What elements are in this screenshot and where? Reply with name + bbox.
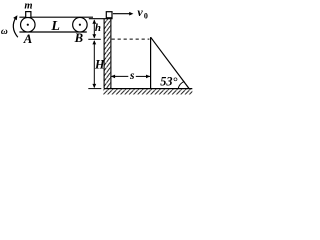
svg-text:s: s xyxy=(129,70,135,82)
svg-text:L: L xyxy=(50,19,60,34)
svg-text:H: H xyxy=(94,57,105,71)
ground line xyxy=(104,88,192,90)
tick at ground level left of wall xyxy=(88,88,101,90)
incline hypotenuse xyxy=(151,37,190,88)
pulley B xyxy=(73,17,88,32)
svg-text:m: m xyxy=(24,1,32,12)
svg-text:h: h xyxy=(95,22,101,34)
svg-text:ω: ω xyxy=(1,27,8,37)
wall top line xyxy=(89,18,113,20)
dashed line from wall to incline apex xyxy=(112,38,150,40)
s dimension arrow xyxy=(112,75,129,77)
wire: belt bottom line xyxy=(19,31,86,33)
block m on belt xyxy=(26,12,31,18)
h dimension arrow xyxy=(93,20,95,38)
wall left edge xyxy=(103,19,105,89)
incline angle arc xyxy=(178,81,184,88)
H dimension arrow xyxy=(93,41,95,88)
wire: belt top line xyxy=(19,16,93,18)
ground hatch xyxy=(103,89,192,94)
svg-text:0: 0 xyxy=(144,11,148,20)
wall right edge xyxy=(110,19,112,89)
pulley A xyxy=(21,17,36,32)
svg-text:v: v xyxy=(137,5,143,19)
svg-text:B: B xyxy=(74,31,83,45)
tick under h arrow xyxy=(88,38,101,40)
omega rotation arrow arc xyxy=(13,17,18,37)
svg-text:53°: 53° xyxy=(160,74,177,88)
svg-text:A: A xyxy=(23,32,32,46)
block at wall top (leaving with v0) xyxy=(106,12,112,18)
omega arrow head xyxy=(13,15,17,20)
wall (hatched vertical strip) xyxy=(104,19,111,89)
incline vertical side xyxy=(150,37,152,88)
v0 arrow xyxy=(113,13,130,15)
